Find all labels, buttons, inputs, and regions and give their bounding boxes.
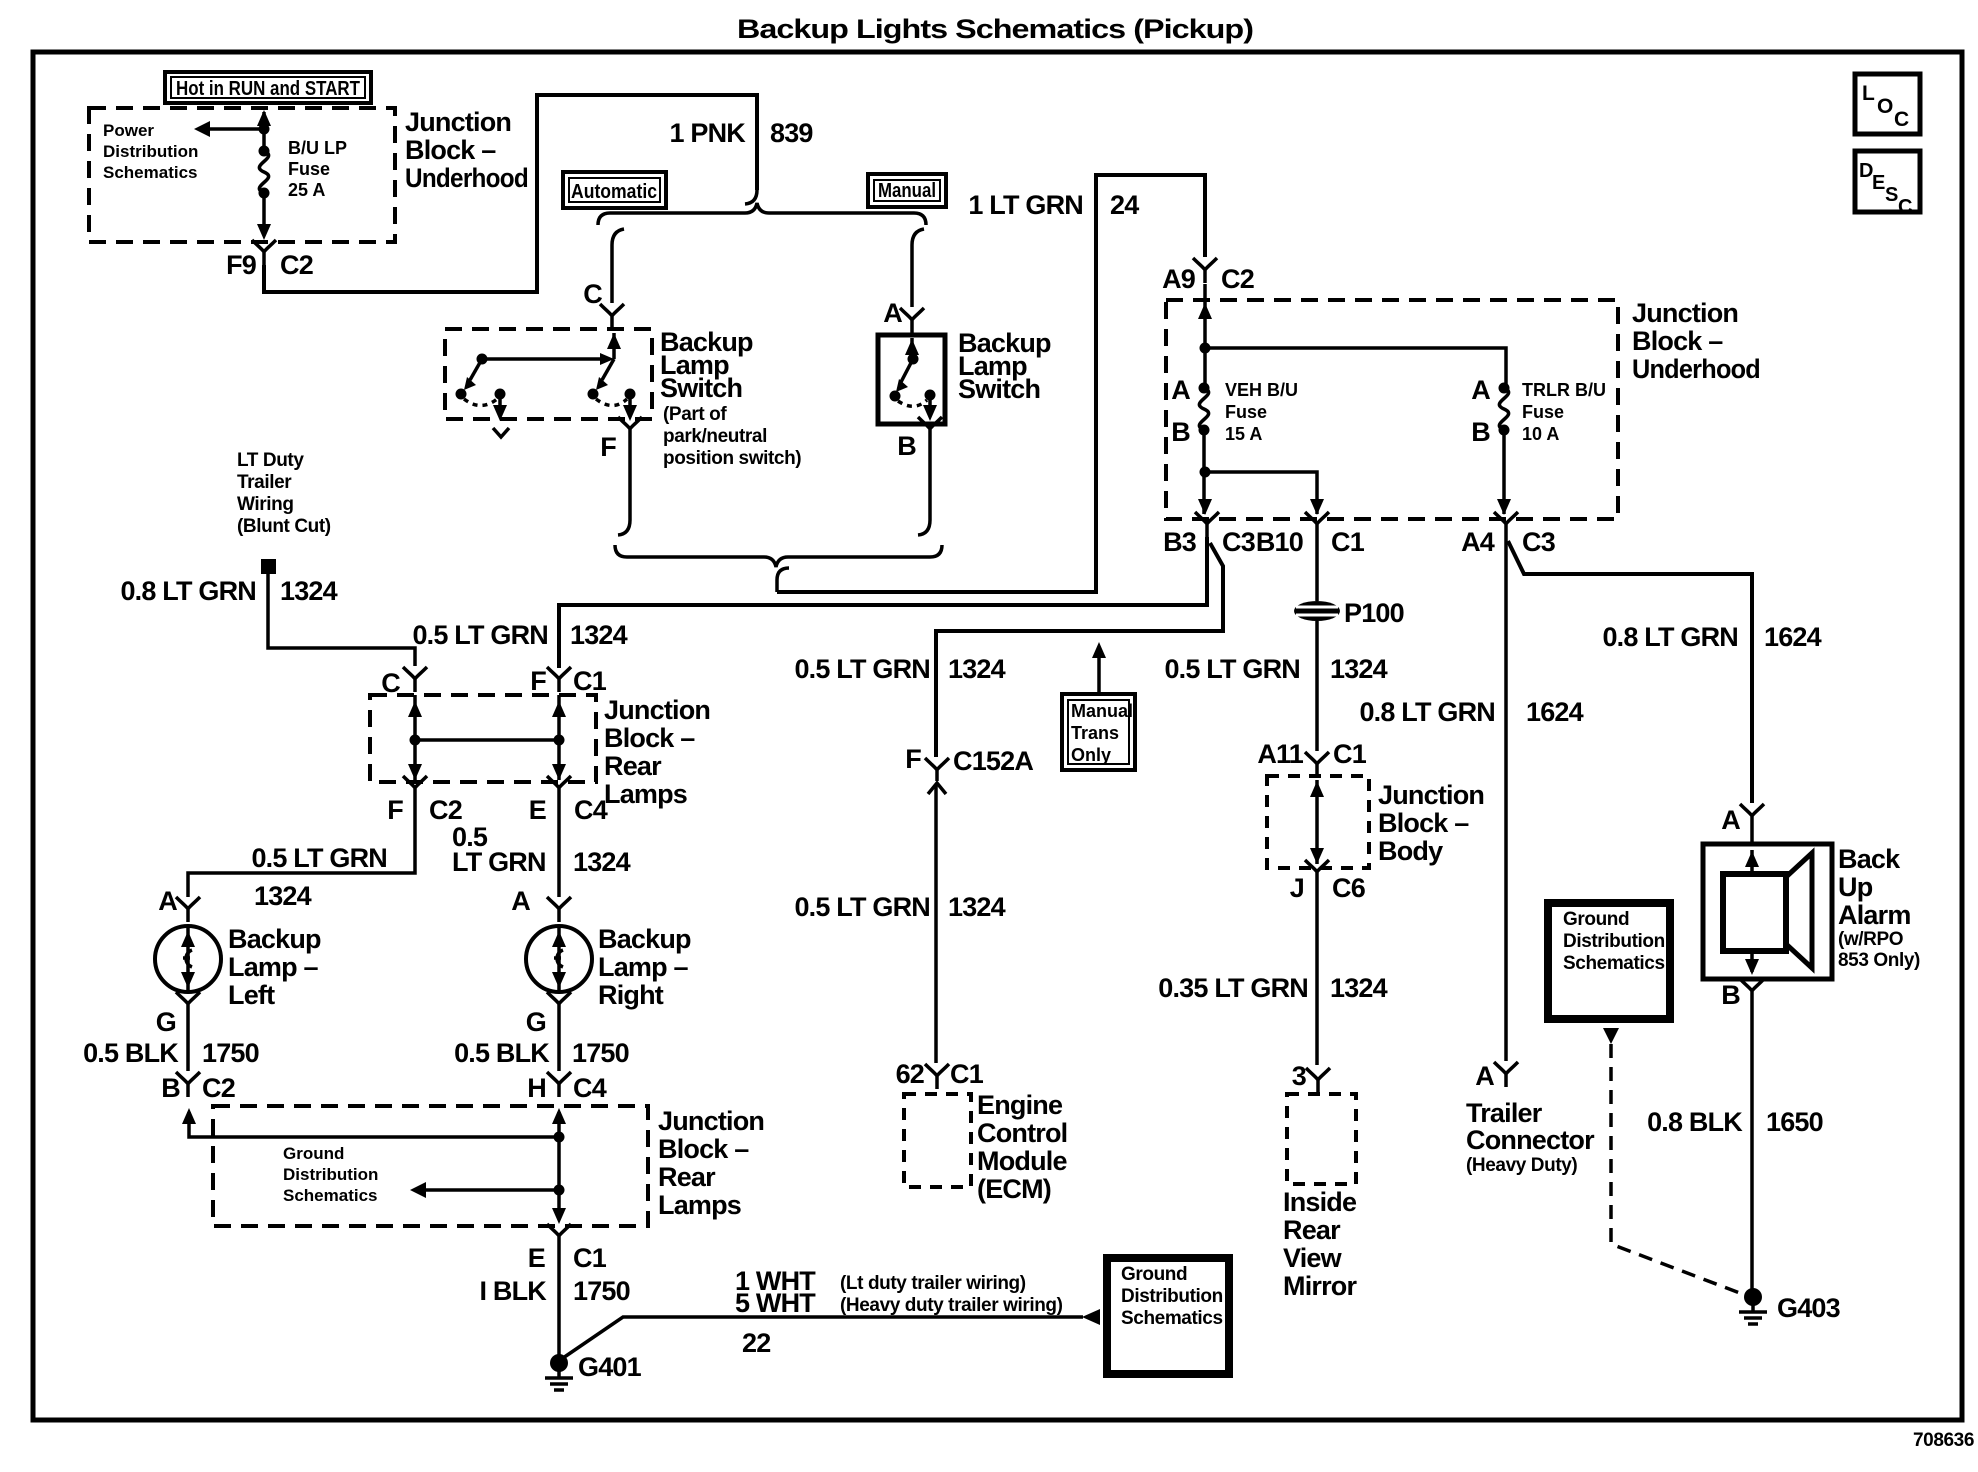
wire B to brace bbox=[918, 442, 930, 535]
svg-text:C: C bbox=[1894, 108, 1909, 131]
svg-text:Distribution: Distribution bbox=[1563, 931, 1665, 952]
svg-text:C2: C2 bbox=[429, 795, 462, 825]
svg-text:0.5 LT GRN: 0.5 LT GRN bbox=[1164, 654, 1300, 684]
svg-text:708636: 708636 bbox=[1913, 1430, 1974, 1451]
svg-text:Control: Control bbox=[977, 1118, 1067, 1148]
grommet P100 bbox=[1294, 598, 1404, 628]
svg-text:C: C bbox=[583, 279, 602, 309]
svg-text:1324: 1324 bbox=[948, 654, 1006, 684]
label Junction Block - Body bbox=[1378, 780, 1484, 866]
label 0.8 LT GRN 1624 (alarm) bbox=[1602, 622, 1821, 652]
wire ground distribution arrow bbox=[410, 1182, 559, 1198]
wire J to mirror bbox=[1315, 885, 1319, 1065]
svg-text:B: B bbox=[1721, 980, 1740, 1010]
fuse VEH B/U 15A bbox=[1171, 375, 1298, 447]
node branch2 bbox=[1200, 467, 1211, 478]
label 0.8 LT GRN 1624 (trailer) bbox=[1359, 697, 1583, 727]
wire to manual switch bbox=[912, 229, 924, 307]
svg-text:Switch: Switch bbox=[958, 374, 1040, 404]
svg-text:O: O bbox=[1877, 95, 1893, 118]
svg-text:Rear: Rear bbox=[604, 751, 662, 781]
label 0.8 LT GRN 1324 bbox=[120, 576, 337, 606]
wire branch to B10 bbox=[1205, 472, 1317, 514]
node branch bbox=[1200, 343, 1211, 354]
brace splice upper bbox=[598, 203, 926, 225]
svg-text:Backup: Backup bbox=[598, 924, 691, 954]
node F bbox=[600, 417, 642, 462]
svg-text:Schematics: Schematics bbox=[1121, 1308, 1223, 1329]
wire A9 into box bbox=[1203, 284, 1207, 388]
ground distribution schematics box (bottom) bbox=[1107, 1258, 1229, 1374]
svg-text:Junction: Junction bbox=[604, 695, 710, 725]
svg-text:0.35 LT GRN: 0.35 LT GRN bbox=[1158, 973, 1308, 1003]
svg-text:Distribution: Distribution bbox=[103, 142, 198, 161]
wire splice to A9 bbox=[777, 568, 789, 592]
label 0.5 LT GRN 1324 (rear) bbox=[412, 620, 627, 650]
node F C2 bbox=[387, 776, 462, 825]
node G right bbox=[526, 992, 571, 1037]
svg-text:LT Duty: LT Duty bbox=[237, 450, 304, 471]
svg-text:Rear: Rear bbox=[658, 1162, 716, 1192]
svg-text:E: E bbox=[528, 1243, 545, 1273]
svg-text:G403: G403 bbox=[1777, 1293, 1841, 1323]
backup lamp switch (manual) box bbox=[878, 335, 945, 424]
svg-text:0.5 LT GRN: 0.5 LT GRN bbox=[794, 892, 930, 922]
label 1 LT GRN 24 bbox=[968, 190, 1139, 220]
node A4 C3 bbox=[1461, 512, 1556, 557]
label Engine Control Module (ECM) bbox=[977, 1090, 1067, 1204]
svg-text:Manual: Manual bbox=[1071, 701, 1133, 721]
svg-text:Trailer: Trailer bbox=[237, 472, 292, 493]
node A left lamp bbox=[158, 886, 200, 922]
svg-text:1324: 1324 bbox=[948, 892, 1006, 922]
node 3 bbox=[1292, 1061, 1330, 1093]
svg-text:Junction: Junction bbox=[658, 1106, 764, 1136]
label 0.5 LT GRN 1324 (ecm lower) bbox=[794, 892, 1005, 922]
node C rear bbox=[381, 667, 427, 698]
svg-text:A: A bbox=[883, 298, 902, 328]
label Backup Lamp - Right bbox=[598, 924, 691, 1010]
wire left lamp ground bbox=[186, 1017, 190, 1071]
svg-text:position switch): position switch) bbox=[663, 448, 801, 469]
svg-text:Switch: Switch bbox=[660, 373, 742, 403]
wire B10 to P100 bbox=[1315, 537, 1319, 601]
svg-text:Block –: Block – bbox=[1378, 808, 1469, 838]
svg-text:Ground: Ground bbox=[1121, 1264, 1187, 1285]
svg-text:F: F bbox=[905, 744, 921, 774]
svg-text:1 PNK: 1 PNK bbox=[669, 118, 746, 148]
svg-text:A: A bbox=[1721, 805, 1740, 835]
wire F to brace bbox=[618, 442, 630, 535]
svg-text:0.8 LT GRN: 0.8 LT GRN bbox=[120, 576, 256, 606]
svg-text:1324: 1324 bbox=[1330, 973, 1388, 1003]
wire A4 to trailer connector bbox=[1504, 537, 1508, 1061]
wire F C2 to left lamp bbox=[188, 801, 415, 897]
svg-text:G: G bbox=[526, 1007, 546, 1037]
node G left bbox=[156, 992, 200, 1037]
connector F9 C2 bbox=[226, 240, 313, 280]
svg-text:(Heavy Duty): (Heavy Duty) bbox=[1466, 1155, 1577, 1176]
svg-text:0.8 LT GRN: 0.8 LT GRN bbox=[1602, 622, 1738, 652]
label Back Up Alarm bbox=[1838, 844, 1920, 971]
svg-text:Only: Only bbox=[1071, 745, 1111, 765]
svg-text:(Lt duty trailer wiring): (Lt duty trailer wiring) bbox=[840, 1273, 1026, 1294]
svg-text:1324: 1324 bbox=[254, 881, 312, 911]
label Junction Block - Rear Lamps bbox=[604, 695, 710, 809]
label LT Duty Trailer Wiring (Blunt Cut) bbox=[237, 450, 331, 537]
svg-text:C1: C1 bbox=[1331, 527, 1365, 557]
wire alarm to G403 bbox=[1750, 1004, 1754, 1290]
label Backup Lamp Switch (left) bbox=[660, 327, 801, 469]
svg-text:Automatic: Automatic bbox=[571, 181, 657, 203]
node A bbox=[883, 298, 924, 333]
svg-text:Fuse: Fuse bbox=[288, 159, 330, 179]
wire C2 to 1 PNK run bbox=[264, 95, 757, 292]
wire E C4 to right lamp bbox=[557, 801, 561, 897]
svg-text:A: A bbox=[1471, 375, 1490, 405]
connector C152A bbox=[905, 744, 1033, 794]
wires inside rear lamp block bbox=[408, 695, 566, 780]
svg-text:Trailer: Trailer bbox=[1466, 1098, 1543, 1128]
dashed ground reference wire bbox=[1603, 1028, 1745, 1295]
back up alarm bbox=[1703, 829, 1832, 979]
svg-text:1324: 1324 bbox=[570, 620, 628, 650]
text ground distribution schematics bbox=[283, 1144, 378, 1205]
ground G401 bbox=[545, 1352, 642, 1390]
node E C4 bbox=[529, 776, 608, 825]
svg-text:1650: 1650 bbox=[1766, 1107, 1823, 1137]
svg-text:Mirror: Mirror bbox=[1283, 1271, 1358, 1301]
wire right lamp ground through block bbox=[552, 1108, 566, 1224]
svg-text:J: J bbox=[1290, 873, 1304, 903]
svg-text:Back: Back bbox=[1838, 844, 1901, 874]
svg-text:P100: P100 bbox=[1344, 598, 1404, 628]
svg-text:C1: C1 bbox=[573, 1243, 607, 1273]
wire to G401 bbox=[557, 1249, 561, 1356]
inside rear view mirror dashed box bbox=[1287, 1094, 1356, 1184]
wire G401 to ground distribution bbox=[563, 1317, 1083, 1358]
svg-text:F9: F9 bbox=[226, 250, 257, 280]
label Trailer Connector bbox=[1466, 1098, 1595, 1176]
node A9 C2 bbox=[1162, 258, 1254, 294]
svg-text:Distribution: Distribution bbox=[1121, 1286, 1223, 1307]
wire B3 to ECM branch bbox=[936, 543, 1223, 757]
svg-text:0.5 BLK: 0.5 BLK bbox=[83, 1038, 179, 1068]
svg-text:E: E bbox=[529, 795, 546, 825]
junction block rear lamps dashed box (upper) bbox=[370, 695, 596, 782]
svg-text:25 A: 25 A bbox=[288, 180, 325, 200]
svg-text:C3: C3 bbox=[1522, 527, 1556, 557]
svg-text:Underhood: Underhood bbox=[405, 163, 528, 193]
svg-text:F: F bbox=[530, 666, 546, 696]
svg-text:A4: A4 bbox=[1461, 527, 1495, 557]
label Inside Rear View Mirror bbox=[1283, 1187, 1358, 1301]
wire B3 to rear lamps junction block bbox=[559, 537, 1207, 668]
junction block rear lamps dashed box (lower) bbox=[213, 1106, 648, 1226]
svg-text:A: A bbox=[511, 886, 530, 916]
wire arrow to power distribution bbox=[208, 127, 264, 131]
svg-text:0.5 LT GRN: 0.5 LT GRN bbox=[794, 654, 930, 684]
svg-text:Wiring: Wiring bbox=[237, 494, 294, 515]
svg-text:LT GRN: LT GRN bbox=[452, 847, 546, 877]
svg-text:Backup Lights Schematics (Pick: Backup Lights Schematics (Pickup) bbox=[737, 14, 1253, 44]
svg-text:E: E bbox=[1872, 172, 1885, 194]
label Backup Lamp Switch (right) bbox=[958, 328, 1051, 404]
node J C6 bbox=[1290, 860, 1366, 903]
node B10 C1 bbox=[1256, 512, 1365, 557]
svg-text:C2: C2 bbox=[280, 250, 313, 280]
node E C1 bbox=[528, 1224, 607, 1273]
svg-text:G: G bbox=[156, 1007, 176, 1037]
svg-text:Manual: Manual bbox=[878, 180, 936, 202]
label 0.8 BLK 1650 bbox=[1647, 1107, 1823, 1137]
svg-text:C: C bbox=[1898, 196, 1912, 218]
backup lamp switch (park/neutral) dashed box bbox=[445, 329, 652, 419]
node Manual tag bbox=[868, 174, 946, 207]
fuse B/U LP 25A bbox=[259, 138, 348, 200]
svg-text:1750: 1750 bbox=[572, 1038, 629, 1068]
svg-text:B10: B10 bbox=[1256, 527, 1303, 557]
svg-text:H: H bbox=[527, 1073, 546, 1103]
ground G403 bbox=[1739, 1288, 1841, 1324]
svg-text:1324: 1324 bbox=[573, 847, 631, 877]
label 0.5 BLK 1750 (left) bbox=[83, 1038, 259, 1068]
wire C152A to ECM bbox=[934, 784, 938, 1063]
svg-text:C3: C3 bbox=[1222, 527, 1256, 557]
label 0.5 LT GRN 1324 (mirror) bbox=[1164, 654, 1387, 684]
svg-text:Schematics: Schematics bbox=[283, 1186, 378, 1205]
svg-text:B: B bbox=[1471, 417, 1490, 447]
svg-text:Ground: Ground bbox=[1563, 909, 1629, 930]
svg-text:B: B bbox=[897, 431, 916, 461]
lamp backup left bbox=[155, 926, 221, 992]
svg-text:A: A bbox=[1475, 1061, 1494, 1091]
svg-text:B3: B3 bbox=[1163, 527, 1197, 557]
svg-text:1750: 1750 bbox=[573, 1276, 630, 1306]
svg-text:Connector: Connector bbox=[1466, 1125, 1595, 1155]
wire from hot feed down bbox=[262, 112, 266, 232]
wire right lamp ground bbox=[557, 1017, 561, 1071]
svg-text:Fuse: Fuse bbox=[1225, 402, 1267, 422]
svg-text:0.5 BLK: 0.5 BLK bbox=[454, 1038, 550, 1068]
label Junction Block - Underhood bbox=[1632, 298, 1760, 384]
svg-text:Inside: Inside bbox=[1283, 1187, 1357, 1217]
svg-text:C4: C4 bbox=[574, 795, 608, 825]
svg-text:View: View bbox=[1283, 1243, 1343, 1273]
svg-text:Lamps: Lamps bbox=[658, 1190, 741, 1220]
node junction bbox=[259, 124, 270, 135]
junction block underhood dashed box bbox=[1166, 300, 1618, 519]
ECM dashed box bbox=[904, 1094, 971, 1187]
svg-text:839: 839 bbox=[770, 118, 813, 148]
node A right lamp bbox=[511, 886, 571, 922]
svg-text:Left: Left bbox=[228, 980, 275, 1010]
svg-text:1624: 1624 bbox=[1764, 622, 1822, 652]
svg-text:Junction: Junction bbox=[1378, 780, 1484, 810]
svg-text:Up: Up bbox=[1838, 872, 1873, 902]
svg-text:Trans: Trans bbox=[1071, 723, 1119, 743]
svg-text:Engine: Engine bbox=[977, 1090, 1063, 1120]
wire to automatic switch bbox=[612, 229, 624, 303]
svg-text:(Heavy duty trailer wiring): (Heavy duty trailer wiring) bbox=[840, 1295, 1063, 1316]
labels 0.5 LT GRN 1324 (left lamp) bbox=[251, 843, 387, 911]
svg-text:park/neutral: park/neutral bbox=[663, 426, 767, 447]
blunt cut terminal bbox=[261, 559, 276, 574]
svg-text:F: F bbox=[387, 795, 403, 825]
svg-text:F: F bbox=[600, 432, 616, 462]
svg-text:Module: Module bbox=[977, 1146, 1067, 1176]
svg-text:0.5 LT GRN: 0.5 LT GRN bbox=[251, 843, 387, 873]
svg-text:B/U LP: B/U LP bbox=[288, 138, 347, 158]
wire through body block bbox=[1310, 780, 1324, 864]
ground distribution schematics box (right) bbox=[1548, 903, 1670, 1019]
wire left lamp ground into block bbox=[182, 1108, 559, 1137]
switch internals bbox=[456, 333, 638, 437]
label Junction Block - Underhood bbox=[405, 107, 528, 193]
svg-text:C4: C4 bbox=[573, 1073, 607, 1103]
label 1 WHT / 5 WHT bbox=[735, 1266, 1063, 1358]
svg-text:C2: C2 bbox=[202, 1073, 235, 1103]
node H C4 bbox=[527, 1072, 606, 1103]
svg-text:0.5 LT GRN: 0.5 LT GRN bbox=[412, 620, 548, 650]
svg-text:24: 24 bbox=[1110, 190, 1139, 220]
node 62 C1 bbox=[896, 1059, 984, 1089]
svg-text:C1: C1 bbox=[1333, 739, 1367, 769]
node A11 C1 bbox=[1257, 739, 1366, 777]
svg-text:Schematics: Schematics bbox=[103, 163, 198, 182]
svg-text:A11: A11 bbox=[1257, 739, 1303, 769]
label 0.5 LT GRN 1324 (ecm upper) bbox=[794, 654, 1005, 684]
svg-text:I BLK: I BLK bbox=[480, 1276, 548, 1306]
svg-text:0.8 BLK: 0.8 BLK bbox=[1647, 1107, 1743, 1137]
svg-text:VEH B/U: VEH B/U bbox=[1225, 380, 1298, 400]
node B alarm bbox=[1721, 979, 1764, 1010]
svg-text:1750: 1750 bbox=[202, 1038, 259, 1068]
node Automatic tag bbox=[563, 172, 666, 208]
svg-text:S: S bbox=[1885, 184, 1898, 206]
node B C2 bbox=[161, 1072, 235, 1103]
svg-text:C152A: C152A bbox=[953, 746, 1033, 776]
label 1 PNK 839 bbox=[669, 118, 813, 148]
node F C1 bbox=[530, 666, 606, 696]
svg-text:Ground: Ground bbox=[283, 1144, 344, 1163]
label 0.5 BLK 1750 (right) bbox=[454, 1038, 629, 1068]
svg-text:B: B bbox=[161, 1073, 180, 1103]
svg-text:Distribution: Distribution bbox=[283, 1165, 378, 1184]
svg-text:Block –: Block – bbox=[604, 723, 695, 753]
node B3 C3 bbox=[1163, 512, 1256, 557]
wire blunt cut to junction block bbox=[268, 574, 415, 666]
svg-text:Fuse: Fuse bbox=[1522, 402, 1564, 422]
switch internals bbox=[890, 338, 938, 421]
node C bbox=[583, 279, 624, 329]
svg-text:1 LT GRN: 1 LT GRN bbox=[968, 190, 1083, 220]
wire VEH fuse out bbox=[1202, 430, 1206, 514]
junction block underhood (left) dashed box bbox=[89, 108, 395, 242]
svg-text:Block –: Block – bbox=[405, 135, 496, 165]
node B bbox=[897, 417, 942, 461]
node A trailer bbox=[1475, 1061, 1518, 1091]
svg-text:5 WHT: 5 WHT bbox=[735, 1288, 816, 1318]
label Junction Block - Rear Lamps (lower) bbox=[658, 1106, 764, 1220]
svg-text:C6: C6 bbox=[1332, 873, 1366, 903]
svg-text:0.8 LT GRN: 0.8 LT GRN bbox=[1359, 697, 1495, 727]
svg-text:Alarm: Alarm bbox=[1838, 900, 1911, 930]
svg-text:Power: Power bbox=[103, 121, 154, 140]
svg-text:62: 62 bbox=[896, 1059, 924, 1089]
svg-text:L: L bbox=[1862, 82, 1875, 105]
svg-text:TRLR B/U: TRLR B/U bbox=[1522, 380, 1606, 400]
wire branch to TRLR fuse bbox=[1205, 348, 1506, 388]
svg-text:3: 3 bbox=[1292, 1061, 1307, 1091]
svg-text:15 A: 15 A bbox=[1225, 424, 1262, 444]
svg-text:C1: C1 bbox=[573, 666, 607, 696]
svg-text:C1: C1 bbox=[950, 1059, 984, 1089]
svg-text:A: A bbox=[158, 886, 177, 916]
svg-text:Lamp –: Lamp – bbox=[228, 952, 319, 982]
svg-text:Hot in RUN and START: Hot in RUN and START bbox=[176, 78, 360, 100]
fuse TRLR B/U 10A bbox=[1471, 375, 1606, 447]
wire TRLR fuse out bbox=[1502, 430, 1506, 514]
svg-text:10 A: 10 A bbox=[1522, 424, 1559, 444]
lamp backup right bbox=[526, 926, 592, 992]
svg-text:A9: A9 bbox=[1162, 264, 1196, 294]
svg-text:Block –: Block – bbox=[658, 1134, 749, 1164]
wire P100 down bbox=[1315, 621, 1319, 751]
wire A4 to alarm bbox=[1508, 541, 1752, 803]
svg-text:(ECM): (ECM) bbox=[977, 1174, 1051, 1204]
svg-text:Junction: Junction bbox=[405, 107, 511, 137]
svg-text:1324: 1324 bbox=[280, 576, 338, 606]
svg-text:Lamp –: Lamp – bbox=[598, 952, 689, 982]
svg-text:Lamps: Lamps bbox=[604, 779, 687, 809]
svg-text:Underhood: Underhood bbox=[1632, 354, 1760, 384]
svg-text:Right: Right bbox=[598, 980, 664, 1010]
svg-text:Block –: Block – bbox=[1632, 326, 1723, 356]
node Hot in RUN and START bbox=[165, 72, 371, 103]
label Backup Lamp - Left bbox=[228, 924, 321, 1010]
node A alarm bbox=[1721, 804, 1764, 835]
svg-text:G401: G401 bbox=[578, 1352, 642, 1382]
svg-text:Body: Body bbox=[1378, 836, 1443, 866]
arrow to ground distribution box bbox=[1082, 1309, 1100, 1325]
svg-text:A: A bbox=[1171, 375, 1190, 405]
brace splice lower bbox=[615, 545, 942, 567]
svg-text:Junction: Junction bbox=[1632, 298, 1738, 328]
svg-text:Rear: Rear bbox=[1283, 1215, 1341, 1245]
svg-text:B: B bbox=[1171, 417, 1190, 447]
svg-text:(Part of: (Part of bbox=[663, 404, 727, 425]
svg-text:1624: 1624 bbox=[1526, 697, 1584, 727]
svg-text:1324: 1324 bbox=[1330, 654, 1388, 684]
label 0.35 LT GRN 1324 bbox=[1158, 973, 1387, 1003]
svg-text:853 Only): 853 Only) bbox=[1838, 950, 1920, 971]
junction block body dashed box bbox=[1267, 776, 1369, 868]
svg-text:(w/RPO: (w/RPO bbox=[1838, 929, 1903, 950]
svg-text:Schematics: Schematics bbox=[1563, 953, 1665, 974]
label I BLK 1750 bbox=[480, 1276, 630, 1306]
svg-text:22: 22 bbox=[742, 1328, 770, 1358]
svg-text:(Blunt Cut): (Blunt Cut) bbox=[237, 516, 331, 537]
svg-text:Backup: Backup bbox=[228, 924, 321, 954]
labels 0.5 LT GRN 1324 (right lamp) bbox=[452, 822, 631, 877]
svg-text:C2: C2 bbox=[1221, 264, 1254, 294]
